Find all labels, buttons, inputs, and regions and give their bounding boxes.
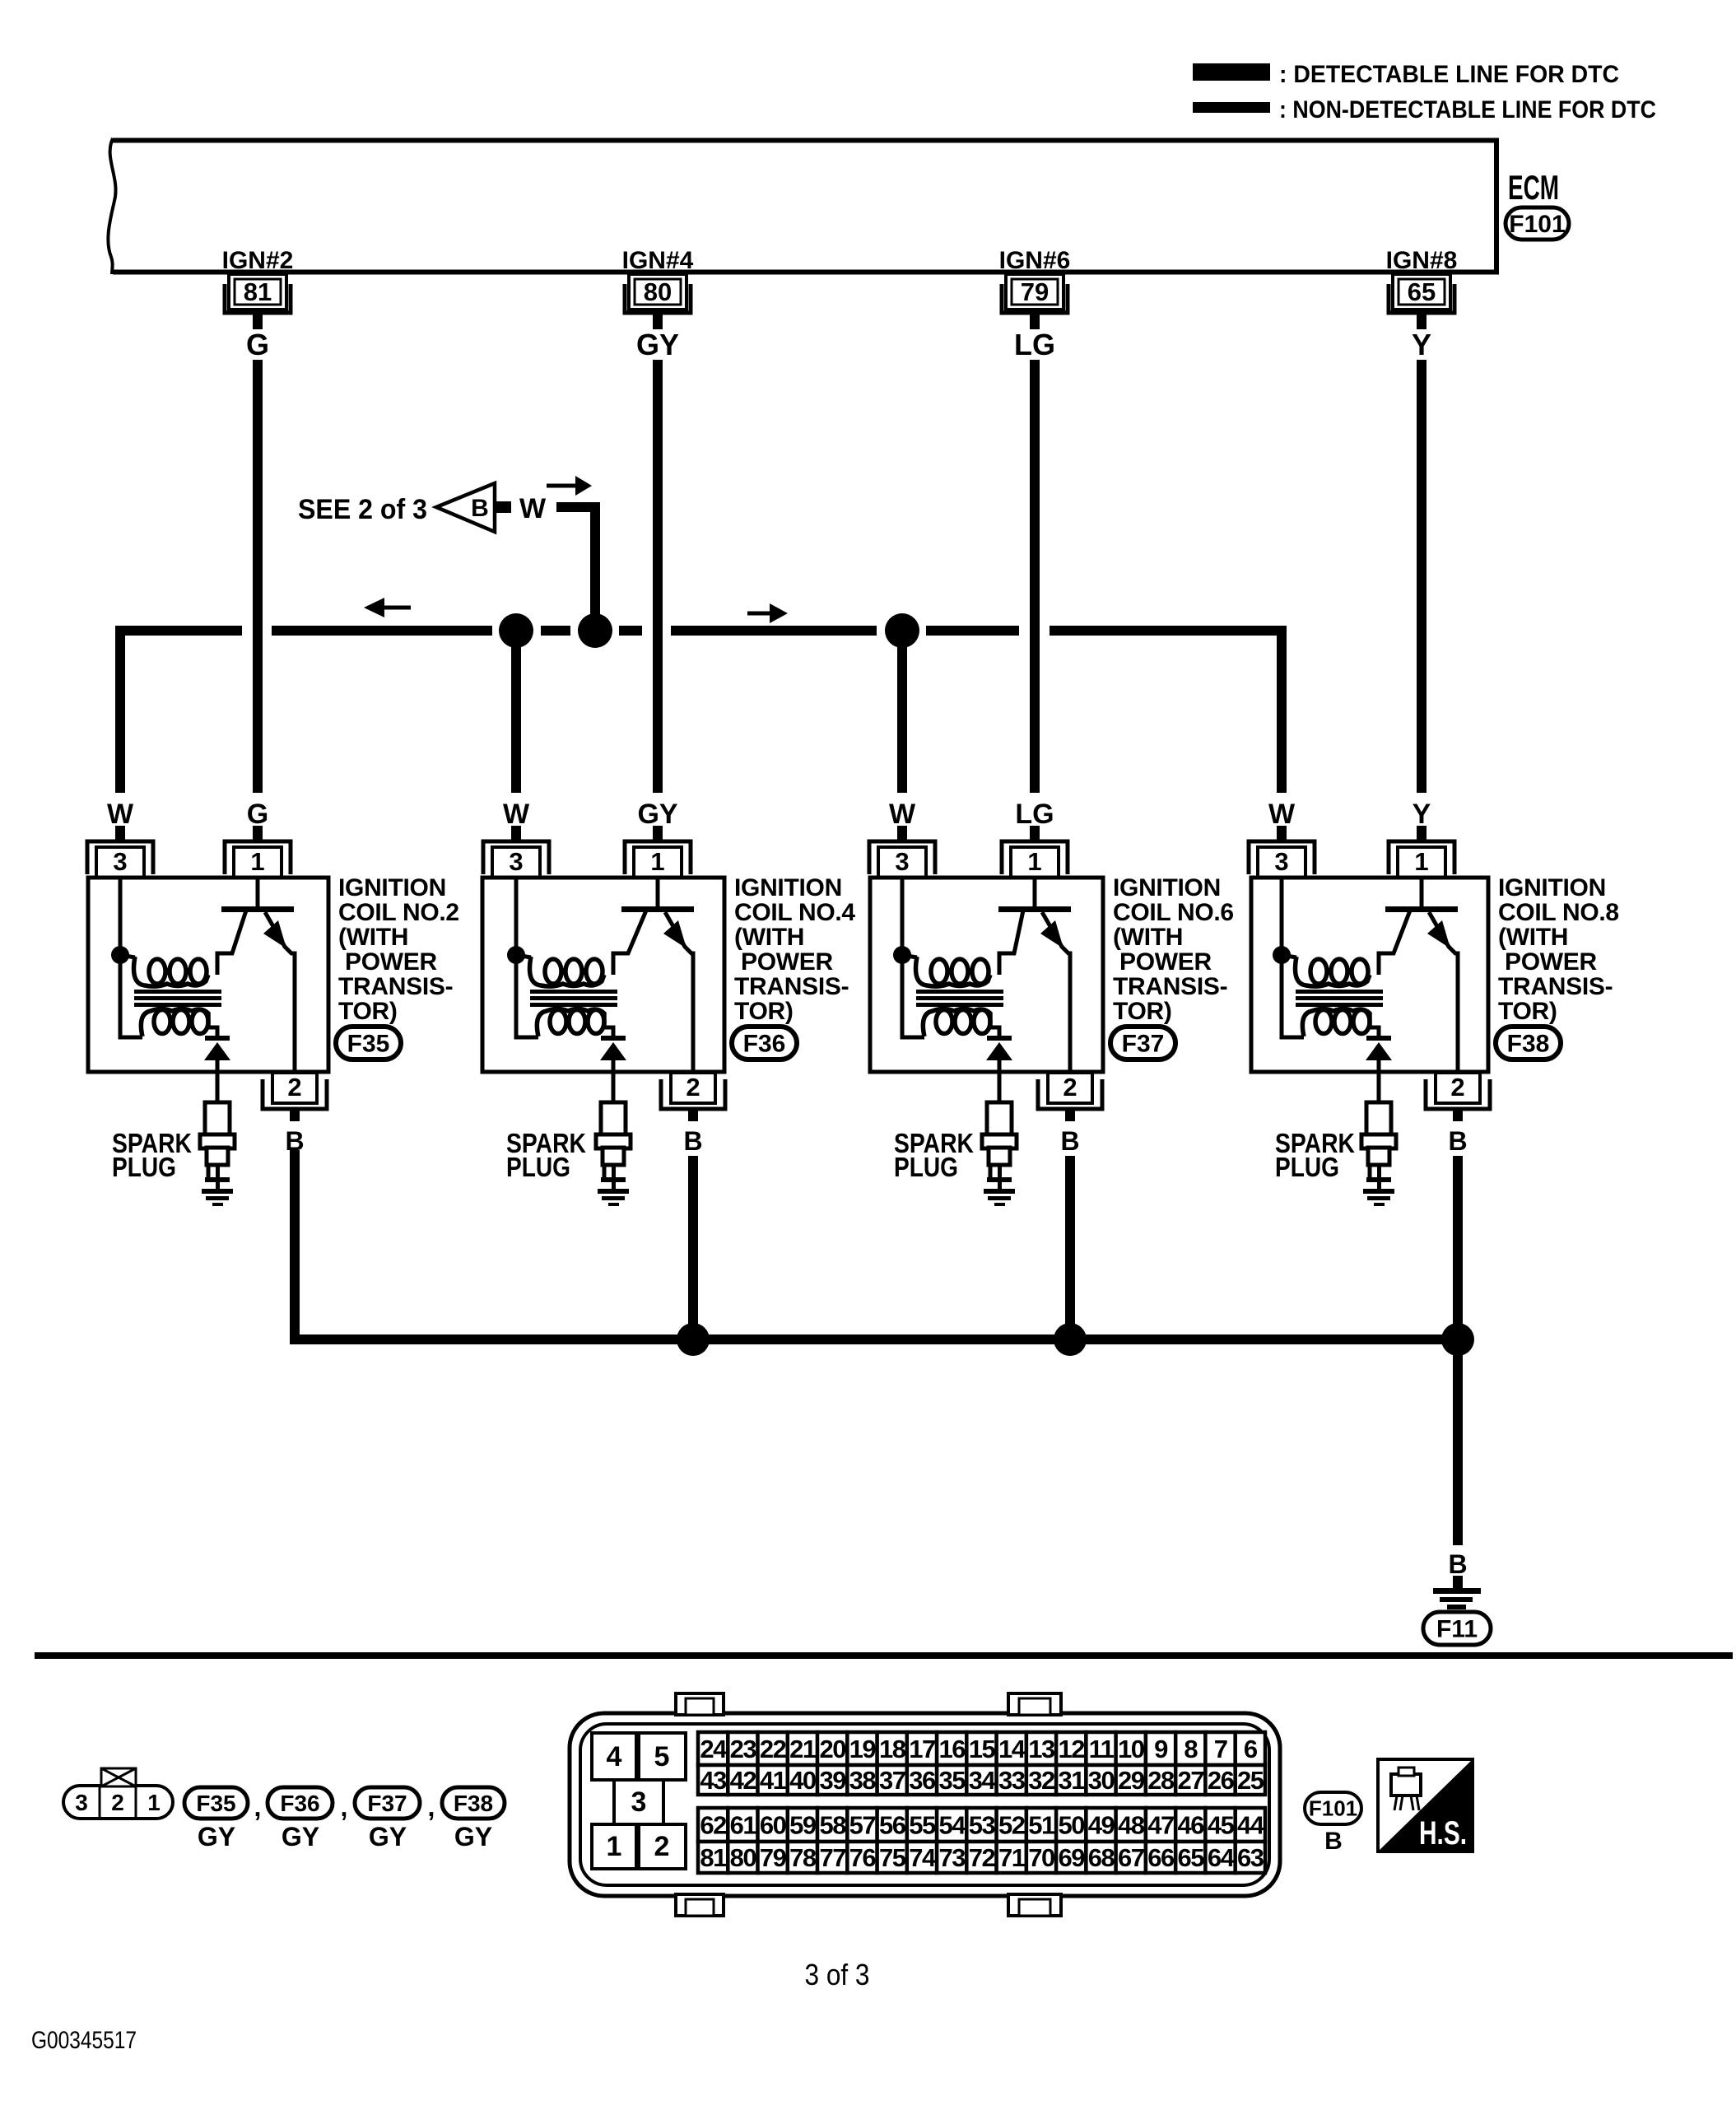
- svg-text:81: 81: [244, 277, 272, 306]
- svg-text:COIL NO.4: COIL NO.4: [734, 899, 855, 926]
- internal junction dot: [111, 946, 129, 964]
- svg-text:9: 9: [1154, 1735, 1168, 1763]
- H.S. harness-side icon: [1378, 1759, 1473, 1851]
- wire diode to spark plug: [998, 1060, 1002, 1103]
- svg-text:: NON-DETECTABLE LINE FOR DTC: : NON-DETECTABLE LINE FOR DTC: [1279, 96, 1656, 123]
- ECM pin 79 connector: [1002, 274, 1068, 329]
- diode (secondary output): [987, 1036, 1012, 1041]
- svg-text:55: 55: [909, 1811, 936, 1840]
- svg-text:1: 1: [147, 1790, 161, 1815]
- stub GY into pin 1: [653, 826, 663, 841]
- svg-text:LG: LG: [1015, 799, 1054, 830]
- W bus segment with right leg down to coil no.8 pin 3: [1050, 631, 1282, 793]
- connector id F35: [336, 1027, 401, 1060]
- power transistor base bar: [1385, 906, 1458, 912]
- svg-text:(WITH: (WITH: [734, 924, 804, 951]
- transformer secondary winding: [1315, 1010, 1332, 1034]
- svg-text:81: 81: [700, 1843, 727, 1872]
- wire G from ECM pin 81 down to ignition coil: [253, 360, 263, 793]
- svg-text:3: 3: [895, 847, 909, 876]
- svg-text:17: 17: [909, 1735, 935, 1763]
- svg-text:30: 30: [1088, 1766, 1115, 1795]
- svg-text:46: 46: [1178, 1811, 1205, 1840]
- W bus segment (between G wire and junction): [272, 626, 492, 636]
- svg-text:G: G: [246, 328, 269, 361]
- wire W from source down to bus junction: [556, 507, 595, 631]
- connector top tab (right): [1008, 1693, 1061, 1715]
- connector bottom tab (left): [676, 1894, 724, 1916]
- secondary to diode wire: [990, 1027, 999, 1036]
- svg-text:28: 28: [1147, 1766, 1175, 1795]
- connector bottom tab (right): [1008, 1894, 1061, 1916]
- svg-text:B: B: [683, 1126, 702, 1156]
- svg-text:37: 37: [879, 1766, 905, 1795]
- svg-text:G: G: [247, 799, 268, 830]
- ground (spark plug no.2): [202, 1189, 233, 1206]
- svg-text:F101: F101: [1509, 211, 1565, 238]
- transformer core: [530, 990, 617, 994]
- stub W into pin 3: [115, 826, 125, 841]
- svg-text:60: 60: [760, 1811, 786, 1840]
- svg-text:POWER: POWER: [345, 948, 437, 976]
- coil no.6 pin 2: [1038, 1073, 1102, 1109]
- wire W from junction down to coil no.6 pin 3: [897, 631, 907, 793]
- svg-text:41: 41: [760, 1766, 787, 1795]
- svg-text:42: 42: [730, 1766, 756, 1795]
- svg-text:73: 73: [938, 1843, 966, 1872]
- svg-text:TOR): TOR): [1113, 998, 1172, 1025]
- ground (spark plug no.6): [984, 1189, 1015, 1206]
- svg-text:LG: LG: [1014, 328, 1055, 361]
- transformer core: [916, 990, 1003, 994]
- coil connector view (3-2-1): [63, 1786, 173, 1819]
- power transistor emitter with arrow: [1042, 912, 1070, 1072]
- connector id F11 (ground): [1423, 1612, 1491, 1645]
- svg-text:58: 58: [819, 1811, 846, 1840]
- svg-text:52: 52: [998, 1811, 1025, 1840]
- svg-text:51: 51: [1028, 1811, 1055, 1840]
- ECM pin 80 connector: [625, 274, 691, 329]
- svg-text:74: 74: [909, 1843, 937, 1872]
- power transistor collector: [1379, 911, 1410, 975]
- power transistor emitter with arrow: [265, 912, 295, 1072]
- svg-text:B: B: [1448, 1549, 1467, 1579]
- off-page connector triangle B: [436, 483, 495, 532]
- stub Y into pin 1: [1417, 826, 1426, 841]
- coil no.2 pin 3: [87, 841, 153, 878]
- ECM box (top): [113, 141, 1496, 272]
- svg-text:POWER: POWER: [1505, 948, 1597, 976]
- svg-text:W: W: [889, 799, 916, 830]
- wire diode to spark plug: [216, 1060, 220, 1103]
- svg-text:67: 67: [1118, 1843, 1144, 1872]
- svg-text:5: 5: [654, 1741, 670, 1772]
- svg-text:W: W: [519, 493, 547, 524]
- wire B from coil no.6 pin 2 down to ground bus: [1065, 1156, 1075, 1339]
- svg-text:W: W: [1268, 799, 1296, 830]
- ECM pin 65 connector: [1389, 274, 1454, 329]
- svg-text:50: 50: [1058, 1811, 1084, 1840]
- svg-text:36: 36: [909, 1766, 936, 1795]
- ECM connector pin row 81-63: [698, 1842, 1265, 1873]
- transformer primary winding: [902, 955, 917, 957]
- svg-text:(WITH: (WITH: [338, 924, 408, 951]
- svg-text:2: 2: [1063, 1073, 1077, 1102]
- svg-text:2: 2: [654, 1831, 670, 1862]
- svg-text:20: 20: [819, 1735, 845, 1763]
- svg-text:61: 61: [730, 1811, 757, 1840]
- separator line: [35, 1652, 1733, 1659]
- power transistor collector: [999, 911, 1023, 975]
- svg-text:TRANSIS-: TRANSIS-: [338, 973, 453, 1000]
- svg-text:F36: F36: [280, 1791, 319, 1816]
- diode (secondary output): [601, 1036, 626, 1041]
- svg-text:43: 43: [700, 1766, 727, 1795]
- svg-text:IGN#8: IGN#8: [1386, 247, 1458, 274]
- svg-text:7: 7: [1214, 1735, 1227, 1763]
- connector id F38 (view): [442, 1787, 505, 1819]
- svg-text:80: 80: [644, 277, 672, 306]
- svg-text:GY: GY: [637, 799, 677, 830]
- svg-text:IGN#2: IGN#2: [222, 247, 294, 274]
- svg-text:10: 10: [1118, 1735, 1144, 1763]
- wire B from coil no.4 pin 2 down to ground bus: [688, 1156, 698, 1339]
- svg-text:B: B: [1324, 1828, 1343, 1855]
- power transistor base wire: [1033, 878, 1037, 906]
- svg-text:2: 2: [111, 1790, 124, 1815]
- svg-text:IGN#6: IGN#6: [999, 247, 1071, 274]
- junction dot (W bus / coil no.4): [499, 613, 533, 648]
- svg-text:77: 77: [819, 1843, 845, 1872]
- transformer secondary winding: [154, 1010, 170, 1034]
- svg-text:POWER: POWER: [741, 948, 833, 976]
- svg-text:,: ,: [254, 1792, 262, 1822]
- stub LG into pin 1: [1030, 826, 1040, 841]
- svg-text:COIL NO.8: COIL NO.8: [1498, 899, 1619, 926]
- coil no.2 pin 1: [225, 841, 291, 878]
- arrow right (bus direction): [747, 612, 770, 616]
- stub B from pin 2: [688, 1109, 698, 1121]
- power transistor collector: [613, 911, 646, 975]
- coil no.8 pin 3: [1249, 841, 1315, 878]
- svg-text:1: 1: [1414, 847, 1428, 876]
- svg-text:W: W: [503, 799, 530, 830]
- W bus segment: [671, 626, 877, 636]
- connector id F35 (view): [184, 1787, 248, 1819]
- svg-text:3: 3: [1274, 847, 1288, 876]
- svg-text:63: 63: [1237, 1843, 1264, 1872]
- coil no.8 pin 2: [1426, 1073, 1490, 1109]
- svg-text:33: 33: [998, 1766, 1026, 1795]
- stub W into pin 3: [511, 826, 521, 841]
- coil no.6 pin 1: [1002, 841, 1068, 878]
- svg-text:24: 24: [700, 1735, 728, 1763]
- svg-text:65: 65: [1408, 277, 1436, 306]
- svg-text:48: 48: [1118, 1811, 1145, 1840]
- stub B from pin 2: [1065, 1109, 1075, 1121]
- stub G into pin 1: [253, 826, 263, 841]
- svg-text:: DETECTABLE LINE FOR DTC: : DETECTABLE LINE FOR DTC: [1279, 61, 1619, 88]
- diode (secondary output): [1366, 1036, 1391, 1041]
- transformer primary winding: [1282, 955, 1296, 957]
- transformer primary winding: [516, 955, 531, 957]
- svg-text:57: 57: [849, 1811, 876, 1840]
- internal junction dot: [1273, 946, 1291, 964]
- svg-text:2: 2: [1450, 1073, 1464, 1102]
- svg-text:2: 2: [287, 1073, 301, 1102]
- connector id F36: [732, 1027, 797, 1060]
- svg-text:B: B: [1060, 1126, 1079, 1156]
- svg-text:1: 1: [1027, 847, 1041, 876]
- wire W from junction down to coil no.4 pin 3: [511, 631, 521, 793]
- svg-text:79: 79: [1021, 277, 1049, 306]
- ignition coil no.6 box: [870, 878, 1103, 1072]
- ECM pin 81 connector: [225, 274, 291, 329]
- ECM connector pin row 62-44: [698, 1808, 1265, 1842]
- power transistor base bar: [621, 906, 694, 912]
- svg-text:TOR): TOR): [1498, 998, 1557, 1025]
- coil no.6 pin 3: [869, 841, 935, 878]
- svg-text:F36: F36: [743, 1031, 786, 1058]
- svg-text:(WITH: (WITH: [1113, 924, 1183, 951]
- legend: detectable line sample: [1193, 63, 1270, 81]
- svg-text:6: 6: [1244, 1735, 1258, 1763]
- stub from triangle B: [495, 501, 511, 513]
- ECM connector view shell: [570, 1713, 1280, 1896]
- ignition coil no.4 box: [482, 878, 724, 1072]
- svg-text:56: 56: [879, 1811, 906, 1840]
- svg-text:32: 32: [1028, 1766, 1054, 1795]
- svg-text:3 of 3: 3 of 3: [805, 1958, 870, 1991]
- stub W into pin 3: [1277, 826, 1287, 841]
- svg-text:62: 62: [700, 1811, 726, 1840]
- secondary to diode wire: [604, 1027, 613, 1036]
- svg-text:TRANSIS-: TRANSIS-: [1498, 973, 1613, 1000]
- spark plug (coil no.6): [982, 1102, 1017, 1190]
- svg-text:IGNITION: IGNITION: [734, 874, 842, 901]
- svg-text:F35: F35: [196, 1791, 235, 1816]
- svg-text:IGN#4: IGN#4: [622, 247, 694, 274]
- internal wire from pin 3 down: [516, 878, 538, 1037]
- power transistor base wire: [1420, 878, 1424, 906]
- wire diode to spark plug: [1377, 1060, 1381, 1103]
- svg-text:14: 14: [998, 1735, 1026, 1763]
- svg-text:TOR): TOR): [338, 998, 398, 1025]
- svg-text:3: 3: [509, 847, 523, 876]
- stub B from pin 2: [290, 1109, 300, 1121]
- svg-text:15: 15: [969, 1735, 996, 1763]
- wire diode to spark plug: [612, 1060, 616, 1103]
- svg-text:W: W: [107, 799, 134, 830]
- svg-text:19: 19: [849, 1735, 877, 1763]
- power transistor base bar: [221, 906, 294, 912]
- svg-text:64: 64: [1208, 1843, 1236, 1872]
- transformer core: [134, 990, 221, 994]
- svg-text:68: 68: [1088, 1843, 1115, 1872]
- svg-text:Y: Y: [1412, 328, 1431, 361]
- svg-text:GY: GY: [454, 1822, 492, 1851]
- svg-text:23: 23: [730, 1735, 757, 1763]
- svg-text:53: 53: [969, 1811, 996, 1840]
- svg-text:34: 34: [969, 1766, 997, 1795]
- svg-text:80: 80: [730, 1843, 756, 1872]
- legend: non-detectable line sample: [1193, 102, 1270, 113]
- wire B from ground bus down to ground F11: [1453, 1339, 1463, 1545]
- svg-text:35: 35: [938, 1766, 966, 1795]
- stub W into pin 3: [897, 826, 907, 841]
- W bus dash: [541, 626, 570, 636]
- connector id F37 (view): [355, 1787, 420, 1819]
- svg-text:72: 72: [969, 1843, 995, 1872]
- svg-text:1: 1: [250, 847, 264, 876]
- svg-text:21: 21: [789, 1735, 817, 1763]
- internal wire from pin 3 down: [1282, 878, 1304, 1037]
- svg-text:COIL NO.6: COIL NO.6: [1113, 899, 1234, 926]
- connector id F38: [1496, 1027, 1561, 1060]
- svg-text:F35: F35: [347, 1031, 390, 1058]
- svg-text:29: 29: [1118, 1766, 1145, 1795]
- svg-text:GY: GY: [282, 1822, 319, 1851]
- svg-text:B: B: [471, 495, 489, 522]
- svg-text:GY: GY: [369, 1822, 407, 1851]
- svg-text:3: 3: [631, 1786, 647, 1818]
- svg-text:TOR): TOR): [734, 998, 794, 1025]
- coil no.4 pin 1: [625, 841, 691, 878]
- ground (spark plug no.8): [1363, 1189, 1394, 1206]
- svg-text:IGNITION: IGNITION: [1498, 874, 1606, 901]
- wire B from coil no.2 pin 2 down to ground bus: [290, 1156, 300, 1339]
- svg-text:45: 45: [1208, 1811, 1235, 1840]
- connector top tab (left): [676, 1693, 724, 1715]
- svg-text:76: 76: [849, 1843, 877, 1872]
- arrow left (bus direction): [383, 606, 411, 610]
- transformer secondary winding: [936, 1010, 952, 1034]
- junction dot (ground bus / coil no.4 B): [677, 1323, 710, 1356]
- junction dot (W bus / coil no.6): [885, 613, 919, 648]
- svg-text:F37: F37: [1122, 1031, 1165, 1058]
- svg-text:SEE 2 of 3: SEE 2 of 3: [298, 494, 427, 525]
- svg-text:TRANSIS-: TRANSIS-: [734, 973, 849, 1000]
- keyway mark (box with X): [101, 1768, 136, 1786]
- internal junction dot: [893, 946, 911, 964]
- wire GY from ECM pin 80 down to ignition coil: [653, 360, 663, 793]
- svg-text:12: 12: [1058, 1735, 1084, 1763]
- svg-text:4: 4: [607, 1741, 622, 1772]
- ECM connector pin row 24-6: [698, 1732, 1265, 1765]
- ground bus B (bottom) with left corner at coil no.2: [295, 1150, 1458, 1339]
- svg-text:71: 71: [998, 1843, 1026, 1872]
- connector id F101 (ECM): [1506, 207, 1569, 240]
- svg-text:3: 3: [75, 1790, 88, 1815]
- W bus segment: [926, 626, 1019, 636]
- svg-text:65: 65: [1178, 1843, 1205, 1872]
- svg-text:GY: GY: [636, 328, 679, 361]
- coil no.2 pin 2: [263, 1073, 327, 1109]
- svg-text:3: 3: [113, 847, 127, 876]
- power transistor base wire: [256, 878, 260, 906]
- svg-text:F101: F101: [1309, 1796, 1357, 1821]
- spark plug (coil no.2): [200, 1102, 235, 1190]
- ECM box torn left edge: [108, 138, 115, 274]
- svg-text:59: 59: [789, 1811, 817, 1840]
- svg-text:26: 26: [1208, 1766, 1235, 1795]
- svg-text:G00345517: G00345517: [31, 2027, 137, 2054]
- junction dot (W bus / source W): [578, 613, 612, 648]
- transformer primary winding: [120, 955, 135, 957]
- svg-text:49: 49: [1088, 1811, 1115, 1840]
- secondary to diode wire: [1370, 1027, 1379, 1036]
- stub B from pin 2: [1453, 1109, 1463, 1121]
- svg-text:38: 38: [849, 1766, 877, 1795]
- power transistor base bar: [998, 906, 1071, 912]
- svg-text:66: 66: [1147, 1843, 1175, 1872]
- W bus segment with left leg down to coil no.2 pin 3: [120, 631, 242, 793]
- arrow right (to 2 of 3): [547, 484, 577, 488]
- svg-text:POWER: POWER: [1119, 948, 1212, 976]
- ECM connector pin row 43-25: [698, 1765, 1265, 1795]
- connector id F37: [1110, 1027, 1175, 1060]
- transformer secondary winding: [550, 1010, 566, 1034]
- svg-text:,: ,: [428, 1792, 435, 1822]
- pin 3 cell: [614, 1780, 663, 1824]
- svg-text:47: 47: [1147, 1811, 1174, 1840]
- junction dot (ground bus / coil no.6 B): [1054, 1323, 1087, 1356]
- coil no.8 pin 1: [1389, 841, 1454, 878]
- svg-text:1: 1: [650, 847, 664, 876]
- svg-text:79: 79: [760, 1843, 787, 1872]
- ignition coil no.8 box: [1251, 878, 1488, 1072]
- svg-text:70: 70: [1028, 1843, 1054, 1872]
- svg-text:GY: GY: [198, 1822, 235, 1851]
- internal wire from pin 3 down: [120, 878, 142, 1037]
- svg-text:IGNITION: IGNITION: [1113, 874, 1221, 901]
- svg-text:18: 18: [879, 1735, 906, 1763]
- pin 2 cell: [639, 1824, 686, 1869]
- svg-text:,: ,: [341, 1792, 348, 1822]
- svg-text:22: 22: [760, 1735, 786, 1763]
- power transistor collector: [217, 911, 246, 975]
- W bus dash: [619, 626, 642, 636]
- connector id F36 (view): [268, 1787, 333, 1819]
- power transistor emitter with arrow: [1429, 912, 1458, 1072]
- junction dot (ground bus / coil no.8 B): [1441, 1323, 1474, 1356]
- svg-text:H.S.: H.S.: [1419, 1815, 1467, 1851]
- svg-text:ECM: ECM: [1508, 168, 1559, 207]
- svg-text:(WITH: (WITH: [1498, 924, 1568, 951]
- svg-text:31: 31: [1058, 1766, 1085, 1795]
- power transistor emitter with arrow: [665, 912, 693, 1072]
- wire B from coil no.8 pin 2 down to ground bus: [1453, 1156, 1463, 1339]
- svg-text:75: 75: [879, 1843, 906, 1872]
- svg-text:2: 2: [686, 1073, 700, 1102]
- svg-text:TRANSIS-: TRANSIS-: [1113, 973, 1227, 1000]
- secondary to diode wire: [208, 1027, 217, 1036]
- stub into ground: [1453, 1576, 1463, 1589]
- svg-text:78: 78: [789, 1843, 817, 1872]
- svg-text:27: 27: [1178, 1766, 1204, 1795]
- svg-text:16: 16: [938, 1735, 966, 1763]
- svg-text:F11: F11: [1436, 1616, 1478, 1643]
- svg-text:25: 25: [1237, 1766, 1264, 1795]
- svg-text:44: 44: [1237, 1811, 1265, 1840]
- svg-text:F38: F38: [454, 1791, 493, 1816]
- pin 1 cell: [592, 1824, 636, 1869]
- wire LG from ECM pin 79 down to ignition coil: [1030, 360, 1040, 793]
- internal junction dot: [507, 946, 525, 964]
- svg-text:PLUG: PLUG: [506, 1152, 570, 1182]
- ground symbol F11: [1433, 1588, 1481, 1609]
- connector id F101 (view): [1305, 1792, 1361, 1824]
